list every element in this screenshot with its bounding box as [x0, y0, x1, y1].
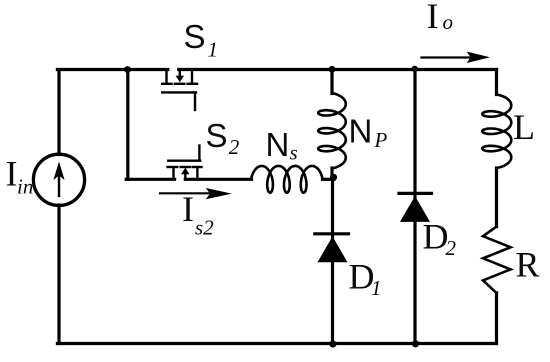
svg-text:I: I: [182, 189, 194, 229]
wire D2 branch: [413, 70, 416, 344]
wire right vertical (middle): [495, 168, 498, 227]
svg-text:1: 1: [371, 276, 382, 300]
transistor S2: [168, 146, 202, 180]
svg-text:2: 2: [229, 135, 240, 159]
svg-text:R: R: [516, 244, 540, 284]
node top D2 junction: [412, 66, 418, 72]
svg-text:N: N: [266, 126, 290, 163]
svg-text:L: L: [513, 107, 535, 147]
wire bottom horizontal: [57, 342, 496, 345]
wire NP top stem: [330, 70, 333, 94]
wire NS to junction: [323, 178, 335, 181]
svg-text:P: P: [374, 128, 388, 152]
wire junction-left vertical to S2: [126, 70, 129, 180]
wire left vertical (source bottom): [57, 205, 60, 344]
svg-text:N: N: [349, 113, 373, 150]
transistor S1: [162, 70, 197, 111]
svg-text:I: I: [427, 0, 439, 36]
svg-text:1: 1: [208, 38, 219, 62]
node bottom D2 junction: [412, 340, 419, 347]
wire S2 drain to coil NS: [185, 178, 251, 181]
wire right vertical (bottom): [495, 293, 498, 344]
svg-text:o: o: [443, 10, 454, 34]
svg-text:in: in: [17, 175, 33, 199]
inductor L: [482, 95, 511, 169]
node bottom D1 junction: [329, 340, 336, 347]
wire NP bottom to junction: [330, 168, 333, 178]
svg-text:I: I: [6, 154, 18, 194]
diode D1: [315, 234, 349, 262]
arrow I_s2 current direction: [160, 188, 232, 199]
svg-text:s2: s2: [195, 216, 214, 240]
wire top horizontal (S1 drain to right corner): [179, 68, 497, 71]
node top NP junction: [329, 66, 336, 73]
node top-left branch junction: [124, 66, 131, 73]
current source I_in: [33, 154, 84, 205]
diode D2: [399, 193, 432, 222]
node NS-NP-D1 junction: [330, 174, 337, 181]
wire D1 branch: [331, 178, 334, 344]
svg-text:S: S: [184, 18, 206, 55]
inductor NS: [251, 166, 323, 193]
arrow I_o current direction: [422, 52, 491, 63]
wire left vertical (source top): [57, 70, 60, 155]
svg-text:2: 2: [446, 236, 457, 260]
svg-text:S: S: [206, 117, 228, 154]
wire right vertical (top): [495, 70, 498, 95]
wire S2 source horizontal: [126, 178, 174, 181]
inductor NP: [318, 93, 346, 169]
resistor R: [483, 227, 511, 293]
wire top-left horizontal: [57, 68, 167, 71]
svg-text:s: s: [290, 141, 298, 165]
